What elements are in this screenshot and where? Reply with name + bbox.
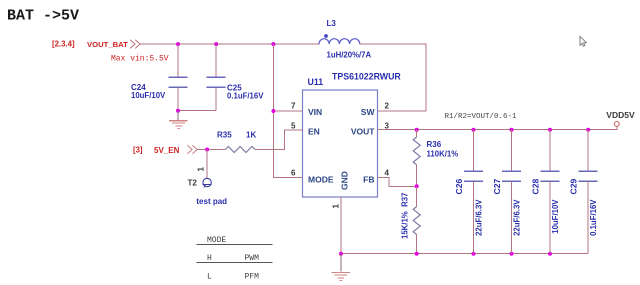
wire 5V_EN to R35 [198,149,226,151]
wire bottom ground rail [341,253,588,255]
junction VOUT rail R36 [415,128,419,132]
wire L3 to SW pin [360,44,426,111]
svg-text:PWM: PWM [245,254,260,263]
svg-text:4: 4 [385,169,390,178]
svg-text:T2: T2 [188,179,198,188]
svg-text:110K/1%: 110K/1% [427,150,459,159]
junction ground rail C28 [548,252,552,256]
junction C24 top [176,42,180,46]
junction FB node [415,184,419,188]
inductor L3 [319,34,360,44]
mouse cursor [580,36,586,46]
svg-text:TPS61022RWUR: TPS61022RWUR [332,72,401,82]
svg-text:C27: C27 [492,179,502,195]
wire T2 drop [206,150,208,179]
off-page connector chevron 5V_EN [187,145,197,154]
resistor R35 [225,147,255,153]
wire C25 bottom to ground node [178,110,216,112]
junction VOUT rail C28 [548,128,552,132]
wire R35 to EN pin [255,130,303,150]
wire GND pin drop [340,197,342,254]
junction VOUT rail C27 [510,128,514,132]
svg-text:C28: C28 [531,179,541,195]
svg-text:6: 6 [291,169,296,178]
junction T2 tap [205,148,209,152]
wire VOUT rail [378,126,617,130]
svg-text:R35: R35 [217,131,232,140]
svg-text:1uH/20%/7A: 1uH/20%/7A [327,51,372,60]
svg-text:MODE: MODE [308,174,334,184]
svg-text:PFM: PFM [245,272,260,281]
junction VOUT rail C26 [472,128,476,132]
test pad T2 symbol [203,178,212,187]
junction VIN drop [271,42,275,46]
junction ground rail C27 [510,252,514,256]
svg-text:15K/1% R37: 15K/1% R37 [401,193,410,239]
svg-text:R36: R36 [427,140,442,149]
capacitor C25 [207,44,226,111]
svg-text:L: L [207,272,212,281]
table line 2 [196,262,272,264]
junction ground rail C26 [472,252,476,256]
svg-text:3: 3 [385,122,390,131]
svg-text:22uF/6.3V: 22uF/6.3V [513,199,522,236]
svg-text:1K: 1K [246,131,256,140]
junction ground rail R37 [415,252,419,256]
svg-text:GND: GND [340,171,350,190]
wire FB to divider [378,178,417,187]
svg-text:VOUT: VOUT [351,127,375,137]
resistor R37 [413,186,420,253]
svg-text:R1/R2=VOUT/0.6-1: R1/R2=VOUT/0.6-1 [445,113,518,121]
wire to VIN pin [273,110,302,112]
svg-text:10uF/10V: 10uF/10V [551,199,560,234]
power port VDD5V circle [614,122,619,127]
svg-text:Max vin:5.5V: Max vin:5.5V [111,55,169,64]
svg-text:BAT ->5V: BAT ->5V [7,8,79,25]
svg-text:[2.3.4]: [2.3.4] [52,40,75,49]
ground symbol at GND pin [331,254,350,281]
ground symbol at input caps [169,111,188,129]
junction VIN pin [271,109,275,113]
junction VOUT rail C29 [586,128,590,132]
svg-text:test pad: test pad [196,197,227,206]
junction input ground node [176,109,180,113]
table line 1 [196,244,272,246]
svg-text:[3]: [3] [133,146,143,155]
svg-text:C29: C29 [569,179,579,195]
svg-text:EN: EN [308,127,320,137]
resistor R36 [413,130,420,187]
capacitor C28 [541,130,560,254]
capacitor C26 [464,130,483,254]
IC U11 TPS61022RWUR body [303,90,378,197]
svg-text:L3: L3 [327,19,337,28]
svg-text:22uF/6.3V: 22uF/6.3V [475,199,484,236]
junction C25 top [214,42,218,46]
svg-text:1: 1 [197,167,206,172]
svg-text:U11: U11 [308,77,324,87]
wire VIN drop to MODE [273,44,302,178]
svg-text:FB: FB [363,174,374,184]
svg-text:5: 5 [291,122,296,131]
svg-text:0.1uF/16V: 0.1uF/16V [227,91,264,100]
wire VOUT_BAT top rail [140,43,320,45]
svg-text:VIN: VIN [308,107,322,117]
svg-text:MODE: MODE [207,236,226,245]
svg-text:2: 2 [385,102,390,111]
svg-text:7: 7 [291,102,296,111]
svg-text:H: H [207,254,212,263]
svg-text:10uF/10V: 10uF/10V [131,91,166,100]
svg-text:1: 1 [332,204,341,209]
capacitor C24 [169,44,188,111]
svg-text:C26: C26 [454,179,464,195]
svg-text:VDD5V: VDD5V [606,110,635,120]
junction ground rail GND pin [339,252,343,256]
svg-text:0.1uF/16V: 0.1uF/16V [589,199,598,236]
capacitor C27 [502,130,521,254]
svg-text:SW: SW [361,107,376,117]
capacitor C29 [579,130,598,254]
svg-text:5V_EN: 5V_EN [154,146,180,155]
off-page connector chevron VOUT_BAT [130,40,140,49]
svg-text:VOUT_BAT: VOUT_BAT [87,40,128,49]
